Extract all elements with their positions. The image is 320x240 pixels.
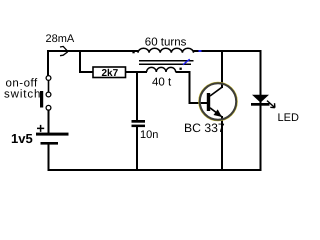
svg-text:60 turns: 60 turns [145,37,187,49]
LED D1 wire [260,50,262,170]
blue mark on wire [199,50,202,52]
wire resistor branch vertical [79,50,81,73]
wire bottom horizontal [48,169,262,171]
transistor Q1 circle [199,83,237,121]
transistor Q1 emitter arrow [214,109,223,117]
svg-text:2k7: 2k7 [102,68,119,79]
wire resistor to winding [126,71,148,73]
capacitor C1 [132,120,146,127]
LED D1 cathode bar [251,103,270,106]
phasing dot primary [132,51,134,53]
svg-text:28mA: 28mA [46,33,75,45]
transistor Q1 collector wire [221,50,223,88]
svg-text:switch: switch [4,88,41,100]
svg-text:LED: LED [278,112,299,124]
transistor Q1 collector lead [210,87,223,96]
wire branch to resistor [79,71,93,73]
resistor R1 2k7 [93,67,126,79]
LED D1 triangle [252,95,269,103]
wire top-left horizontal [47,50,138,52]
phasing dot secondary [180,68,182,70]
blue mark on core [183,59,190,64]
transistor Q1 base bar [207,93,210,111]
current arrow [60,46,68,55]
transformer T1 primary winding [138,48,194,53]
transformer core [139,60,194,62]
wire battery to bottom [48,145,50,170]
transformer T1 secondary winding [147,67,176,72]
svg-text:BC 337: BC 337 [184,121,225,135]
transistor Q1 emitter lead [210,108,222,117]
wire secondary to base elbow [176,72,207,103]
svg-text:40 t: 40 t [152,77,172,89]
battery B1 [36,125,69,145]
switch S1 [40,76,51,111]
LED light arrow [267,101,275,108]
svg-text:1v5: 1v5 [11,131,33,146]
transistor Q1 emitter wire [221,116,223,170]
svg-text:10n: 10n [140,129,158,141]
wire capacitor branch vertical [136,71,138,120]
wire left vertical [47,50,49,76]
wire capacitor to bottom [136,127,138,170]
wire switch to battery [48,110,50,133]
wire top right horizontal [194,50,262,52]
